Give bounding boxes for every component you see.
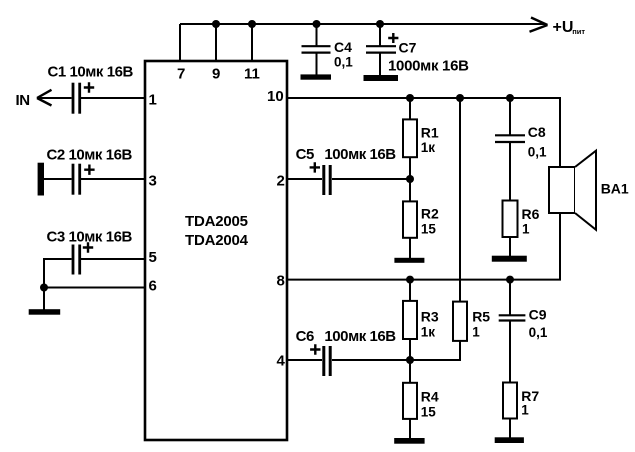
capacitor C1 (73, 83, 80, 114)
wire corner down to junction (43, 258, 45, 288)
svg-text:пит: пит (572, 27, 585, 36)
wire pin 4 to C6 (287, 359, 322, 361)
svg-text:2: 2 (277, 173, 285, 190)
wire junction to ground (43, 288, 45, 310)
wire C8 to R6 (509, 142, 511, 200)
wire C3 to pin 5 (81, 258, 145, 260)
speaker BA1 (549, 167, 575, 213)
svg-text:R2: R2 (421, 206, 439, 222)
wire C4 bottom stem (316, 53, 318, 75)
resistor R2 (403, 201, 417, 237)
svg-text:R6: R6 (522, 206, 540, 222)
junction C7/rail (376, 20, 384, 28)
wire pin 8 net (287, 279, 561, 281)
capacitor C5 polarity + (310, 162, 320, 172)
svg-text:C3 10мк 16В: C3 10мк 16В (47, 229, 133, 246)
ground R2 (394, 258, 424, 263)
capacitor C2 polarity + (84, 165, 94, 175)
svg-text:C5100мк 16В: C5100мк 16В (296, 146, 397, 163)
junction R1 top (406, 94, 414, 102)
svg-text:1: 1 (521, 403, 529, 418)
svg-text:C2 10мк 16В: C2 10мк 16В (47, 147, 133, 164)
ground R4 (394, 438, 424, 444)
svg-text:0,1: 0,1 (529, 325, 548, 340)
svg-text:C6100мк 16В: C6100мк 16В (296, 328, 397, 345)
capacitor C2 (73, 164, 80, 195)
wire C9 top stem (509, 280, 511, 315)
wire R3 top stem (409, 280, 411, 301)
junction C8 top (506, 94, 514, 102)
wire C4 top stem (316, 24, 318, 46)
junction C4/rail (313, 20, 321, 28)
wire C7 top stem (379, 24, 381, 46)
wire C2 to pin 3 (81, 178, 145, 180)
wire C3 left to corner (44, 258, 72, 260)
ground C7 (364, 75, 399, 81)
wire pin 11 riser (251, 24, 253, 61)
svg-text:R5: R5 (472, 309, 490, 325)
wire R1 top stem (409, 98, 411, 119)
junction C3/pin6 (40, 284, 48, 292)
junction pin9/rail (212, 20, 220, 28)
resistor R4 (403, 383, 417, 419)
resistor R5 (453, 302, 467, 341)
svg-text:C9: C9 (529, 307, 547, 323)
svg-text:8: 8 (277, 273, 285, 290)
wire R5 bottom to pin4 net (410, 341, 460, 360)
svg-text:3: 3 (149, 173, 157, 190)
capacitor C4 (302, 46, 331, 52)
svg-text:10: 10 (267, 88, 284, 105)
svg-text:5: 5 (149, 249, 157, 266)
wire R6 bottom stem (509, 237, 511, 256)
svg-text:1: 1 (149, 92, 157, 109)
svg-text:C8: C8 (528, 124, 546, 140)
junction R5 branch (456, 94, 464, 102)
svg-text:0,1: 0,1 (528, 144, 547, 159)
wire R7 bottom stem (509, 419, 511, 438)
capacitor C7 polarity + (388, 33, 398, 43)
wire C7 bottom stem (379, 53, 381, 75)
svg-text:9: 9 (212, 65, 220, 82)
capacitor C1 polarity + (84, 82, 94, 92)
capacitor C6 (324, 346, 330, 376)
svg-text:R3: R3 (421, 309, 439, 325)
svg-text:11: 11 (244, 65, 260, 82)
wire R5 riser from pin10 net (459, 98, 461, 302)
svg-text:IN: IN (16, 92, 30, 109)
resistor R1 (403, 119, 417, 157)
wire C5 to junction (332, 178, 410, 180)
wire R4 top stem (409, 360, 411, 383)
svg-text:+U: +U (553, 19, 574, 36)
junction pin11/rail (248, 20, 256, 28)
svg-text:C4: C4 (334, 39, 352, 55)
wire C9 to R7 (509, 321, 511, 383)
capacitor C8 (495, 135, 525, 142)
op-amp IC TDA2005/TDA2004 U1 (145, 61, 287, 440)
svg-text:15: 15 (421, 405, 437, 420)
resistor R3 (403, 301, 417, 339)
wire pin 6 (44, 287, 145, 289)
junction C9 top (506, 276, 514, 284)
junction R3 top (406, 276, 414, 284)
ground C4 (301, 74, 332, 79)
svg-text:1к: 1к (421, 140, 436, 155)
svg-text:7: 7 (177, 65, 185, 82)
svg-text:4: 4 (277, 353, 286, 370)
node C2 input stub (38, 163, 44, 196)
wire pin 7 riser (179, 24, 181, 61)
svg-text:TDA2004: TDA2004 (185, 232, 249, 249)
wire power rail top (180, 23, 545, 25)
wire R2 bottom stem (409, 238, 411, 258)
svg-text:0,1: 0,1 (334, 55, 353, 70)
wire stub to C2 (44, 178, 72, 180)
capacitor C3 polarity + (83, 242, 93, 252)
svg-text:1000мк 16В: 1000мк 16В (388, 58, 469, 75)
junction C6/R3/R4/R5 (406, 356, 414, 364)
svg-text:R1: R1 (421, 125, 439, 141)
wire pin 10 net (287, 98, 560, 167)
wire R2 top stem (409, 179, 411, 201)
capacitor C6 polarity + (310, 344, 320, 354)
wire R4 bottom stem (409, 419, 411, 439)
junction C5/R1/R2 (406, 175, 414, 183)
svg-text:1: 1 (472, 325, 480, 340)
node +U arrow (530, 18, 548, 32)
capacitor C5 (324, 165, 330, 195)
svg-text:TDA2005: TDA2005 (185, 213, 248, 230)
svg-text:15: 15 (421, 222, 437, 237)
svg-text:6: 6 (149, 278, 157, 295)
wire C1 to pin 1 (81, 97, 145, 99)
ground R7 (495, 437, 524, 443)
ground input (29, 309, 61, 315)
resistor R6 (503, 201, 518, 238)
wire C6 to junction (332, 359, 410, 361)
capacitor C3 (73, 245, 80, 275)
wire R1 bottom stem (409, 157, 411, 179)
wire IN to C1 (39, 97, 72, 99)
wire pin 2 to C5 (287, 178, 322, 180)
node IN arrow (37, 90, 52, 106)
svg-text:BA1: BA1 (601, 180, 629, 196)
capacitor C7 (366, 46, 396, 52)
svg-text:1к: 1к (421, 325, 436, 340)
wire C8 top stem (509, 98, 511, 135)
resistor R7 (503, 383, 517, 419)
svg-text:1: 1 (522, 222, 530, 237)
wire speaker bottom (559, 213, 561, 280)
svg-text:R4: R4 (421, 389, 439, 405)
ground R6 (492, 256, 527, 262)
svg-text:C7: C7 (399, 40, 417, 56)
wire pin 9 riser (215, 24, 217, 61)
capacitor C9 (499, 315, 526, 320)
wire R3 bottom stem (409, 339, 411, 360)
svg-text:C1 10мк 16В: C1 10мк 16В (48, 64, 134, 81)
